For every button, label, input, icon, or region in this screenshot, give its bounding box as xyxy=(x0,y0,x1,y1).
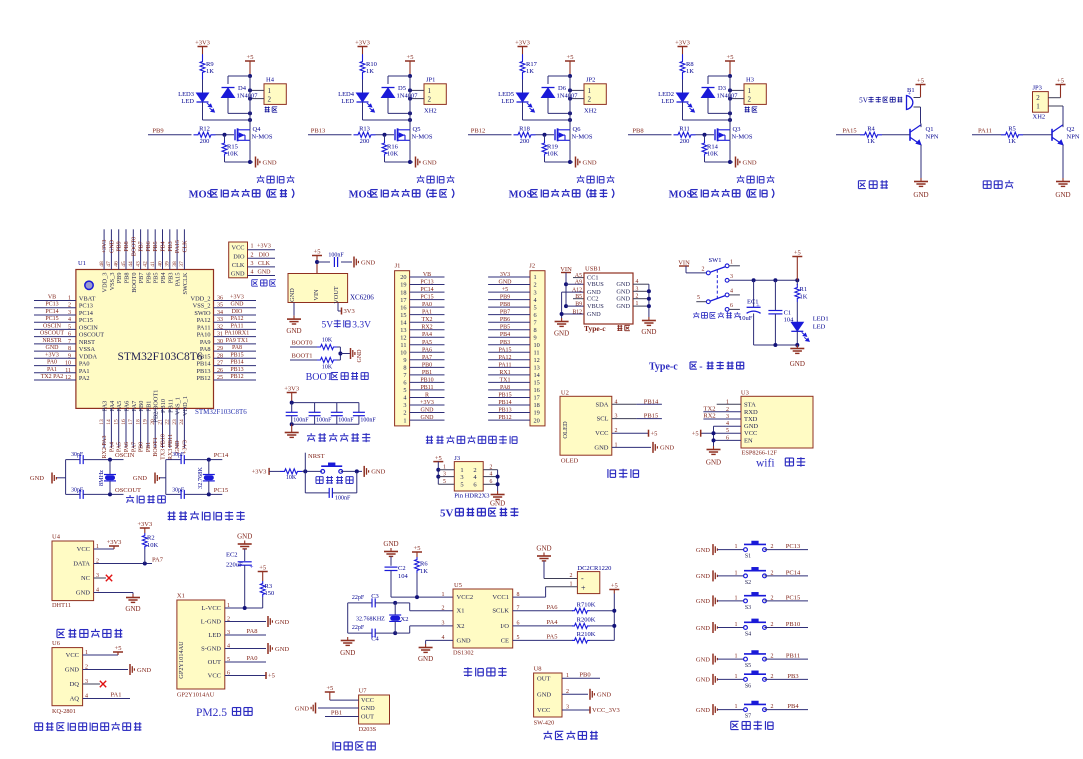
capacitor 100nF #2 xyxy=(314,403,316,413)
wire PA15 to R4 xyxy=(836,134,860,136)
svg-text:GND: GND xyxy=(357,349,363,363)
svg-text:VSSA: VSSA xyxy=(79,346,96,353)
junction dot reset-right xyxy=(355,469,359,473)
svg-text:VCC: VCC xyxy=(77,546,90,553)
svg-text:6: 6 xyxy=(403,380,406,387)
svg-text:PB5: PB5 xyxy=(153,241,159,251)
svg-text:N-MOS: N-MOS xyxy=(252,134,273,141)
svg-text:2: 2 xyxy=(403,410,406,417)
svg-text:2: 2 xyxy=(771,570,774,576)
svg-text:PB8: PB8 xyxy=(124,241,130,251)
caption 输出控制 xyxy=(420,175,422,177)
svg-text:GND: GND xyxy=(583,159,597,166)
svg-text:PB8: PB8 xyxy=(632,127,643,134)
junction dots wifi xyxy=(712,431,716,435)
svg-text:PB6: PB6 xyxy=(145,273,152,284)
junction dot reg input xyxy=(315,260,319,264)
diode D3 1N4007 xyxy=(702,88,715,98)
svg-text:+5: +5 xyxy=(1057,78,1064,85)
svg-text:RX2: RX2 xyxy=(421,325,432,331)
wire DATA to PA7 xyxy=(94,563,152,565)
svg-text:2: 2 xyxy=(534,282,537,289)
capacitor 100nF #4 xyxy=(358,403,360,413)
svg-text:5: 5 xyxy=(68,324,71,330)
svg-text:PB10: PB10 xyxy=(786,621,800,628)
wire kq GND xyxy=(83,669,128,671)
svg-text:GND: GND xyxy=(275,646,289,653)
wire JP3 pin1 to collector xyxy=(1048,105,1063,107)
resistor R3 150 xyxy=(260,581,265,597)
svg-text:PC15: PC15 xyxy=(214,487,228,494)
wire +5 node to diode D3 top xyxy=(708,75,730,77)
svg-text:11: 11 xyxy=(534,350,540,357)
svg-text:2: 2 xyxy=(702,266,705,272)
svg-text:Type-c: Type-c xyxy=(584,324,606,333)
svg-text:30pF: 30pF xyxy=(172,452,185,458)
svg-text:+: + xyxy=(756,303,760,310)
caption 温湿度传感器 xyxy=(57,628,65,630)
svg-text:14: 14 xyxy=(400,319,407,326)
resistor R16 10K pulldown xyxy=(384,135,386,141)
svg-text:1: 1 xyxy=(443,464,446,470)
svg-text:LED5: LED5 xyxy=(498,91,514,98)
svg-text:PA1: PA1 xyxy=(111,692,122,699)
net label OSCIN xyxy=(110,459,124,461)
resistor R7 10K xyxy=(572,608,590,613)
svg-text:X2: X2 xyxy=(457,623,465,630)
resistor 10K (BOOT1) xyxy=(317,357,337,362)
svg-text:3: 3 xyxy=(251,261,254,267)
wire B12 GND xyxy=(562,313,584,315)
resistor R19 10K pulldown xyxy=(544,135,546,141)
svg-text:+3V3: +3V3 xyxy=(230,295,244,301)
svg-text:SWCLK: SWCLK xyxy=(182,272,189,294)
wire JP2 pin2 xyxy=(570,98,584,100)
svg-text:PB9: PB9 xyxy=(500,295,510,301)
svg-text:VCC: VCC xyxy=(744,430,757,437)
wire S3 to PC15 xyxy=(765,600,809,602)
svg-text:2: 2 xyxy=(771,595,774,601)
switch SW1 lever bottom xyxy=(710,296,726,302)
wire collector Q2 xyxy=(1062,124,1064,128)
ground GND (sw420, bar) xyxy=(589,689,591,700)
svg-text:28: 28 xyxy=(217,353,223,359)
mcu pin 40 PB4 xyxy=(162,229,164,269)
svg-text:D3: D3 xyxy=(718,85,726,92)
svg-text:R16: R16 xyxy=(387,144,399,151)
svg-text:2: 2 xyxy=(636,294,639,300)
svg-text:X1: X1 xyxy=(177,593,185,600)
svg-text:2: 2 xyxy=(68,303,71,309)
svg-text:17: 17 xyxy=(534,395,540,402)
svg-text:30pF: 30pF xyxy=(71,488,84,494)
caption 芯片滤波电容 xyxy=(310,433,312,435)
svg-text:4: 4 xyxy=(730,288,733,294)
svg-text:PA2: PA2 xyxy=(79,375,90,382)
mcu pin 41 PB5 xyxy=(154,229,156,269)
switch SW1 lever top xyxy=(710,267,726,273)
svg-text:GND: GND xyxy=(383,540,398,548)
svg-text:5V: 5V xyxy=(440,508,454,520)
svg-text:GND: GND xyxy=(237,533,252,541)
LED LED1 xyxy=(791,322,803,331)
wire cap to GND xyxy=(341,261,352,263)
wire sw pin3 to +5 rail xyxy=(729,279,797,281)
svg-text:8: 8 xyxy=(68,346,71,352)
svg-text:PB13: PB13 xyxy=(230,367,243,373)
button S7 xyxy=(744,708,748,712)
svg-text:VB: VB xyxy=(48,295,56,301)
svg-text:PC13: PC13 xyxy=(420,280,433,286)
wire S7 to PB4 xyxy=(765,709,809,711)
svg-text:MOS: MOS xyxy=(509,190,533,201)
svg-text:BOOT0: BOOT0 xyxy=(292,340,313,347)
svg-text:GND: GND xyxy=(696,656,710,663)
svg-text:PB9: PB9 xyxy=(116,273,123,284)
svg-text:1K: 1K xyxy=(686,68,694,75)
svg-text:PB8: PB8 xyxy=(500,302,510,308)
wire JP3 pin2 to +5 xyxy=(1048,97,1060,99)
svg-text:SW-420: SW-420 xyxy=(534,720,555,727)
svg-text:CLK: CLK xyxy=(258,261,271,267)
svg-text:GND: GND xyxy=(125,605,140,613)
svg-text:wifi: wifi xyxy=(756,458,775,470)
svg-text:1: 1 xyxy=(735,704,738,710)
svg-text:+5: +5 xyxy=(247,54,254,61)
mcu pin 31 PA10 xyxy=(214,336,257,338)
usb right gnd rail xyxy=(648,284,650,317)
svg-text:1: 1 xyxy=(735,544,738,550)
filter cap bottom bus xyxy=(292,423,359,425)
svg-text:U3: U3 xyxy=(741,390,749,397)
J3 left rail xyxy=(437,462,439,485)
wire R5 to base Q2 xyxy=(1023,134,1052,136)
svg-text:PB3: PB3 xyxy=(168,241,174,251)
net label VCC_3V3 xyxy=(562,709,590,711)
svg-text:GND: GND xyxy=(289,288,296,302)
svg-text:R210K: R210K xyxy=(577,631,596,638)
resistor R10 1K xyxy=(360,55,365,80)
svg-text:PB13: PB13 xyxy=(498,408,511,414)
svg-text:XH2: XH2 xyxy=(1033,114,1046,121)
svg-text:VDDA: VDDA xyxy=(79,353,98,360)
svg-text:22: 22 xyxy=(165,419,171,425)
svg-text:R5: R5 xyxy=(1008,126,1016,133)
no-connect X (dht11 NC) xyxy=(94,577,106,579)
svg-text:1: 1 xyxy=(442,592,445,598)
wire JP2 pin1 xyxy=(570,89,584,91)
svg-text:PB6: PB6 xyxy=(146,241,152,251)
ground GND (pm2.5 p4, bar) xyxy=(267,643,269,654)
svg-text:10K: 10K xyxy=(387,151,399,158)
svg-text:GND: GND xyxy=(295,705,309,712)
svg-text:+3V3: +3V3 xyxy=(195,40,210,47)
svg-text:PA10: PA10 xyxy=(197,332,211,339)
svg-text:13: 13 xyxy=(534,365,540,372)
wire sw pin5 stub xyxy=(696,301,706,303)
mcu pin 29 PA8 xyxy=(214,350,257,352)
svg-text:100nF: 100nF xyxy=(335,496,351,502)
svg-text:2: 2 xyxy=(268,96,272,104)
svg-text:+3V3: +3V3 xyxy=(102,240,108,254)
svg-text:PB13: PB13 xyxy=(311,127,325,134)
svg-text:R4: R4 xyxy=(867,126,875,133)
svg-text:KQ-2801: KQ-2801 xyxy=(52,708,76,715)
svg-text:DC2CR1220: DC2CR1220 xyxy=(577,565,611,572)
svg-text:D203S: D203S xyxy=(359,726,377,733)
net label PB1 xyxy=(325,716,359,718)
wire emitter to GND xyxy=(920,145,922,178)
wire +3V3 to 10K xyxy=(269,470,280,472)
svg-text:Q6: Q6 xyxy=(573,126,582,133)
svg-text:B9: B9 xyxy=(575,302,582,308)
junction dot LED-cathode xyxy=(248,118,252,122)
wire +5 node to diode D4 top xyxy=(228,75,250,77)
net label PA4 xyxy=(513,625,573,627)
ground GND (J3) xyxy=(497,491,499,495)
wire button to gnd xyxy=(341,470,362,472)
svg-text:PB0: PB0 xyxy=(138,401,145,412)
wire +5 rail down to MOSFET drain xyxy=(249,76,251,130)
junction dot diode-bottom xyxy=(408,111,412,115)
mcu pin 18 PB0 xyxy=(140,408,142,448)
svg-text:PB1: PB1 xyxy=(331,710,342,717)
net label PA6 xyxy=(513,610,573,612)
svg-text:200: 200 xyxy=(360,138,370,145)
svg-text:PA11: PA11 xyxy=(499,362,512,368)
diode D6 1N4007 xyxy=(542,88,555,98)
capacitor 100nF #1 xyxy=(291,403,293,413)
caption 输出控制 xyxy=(740,175,742,177)
svg-text:U6: U6 xyxy=(52,640,61,647)
caption 输出控制 xyxy=(580,175,582,177)
svg-text:150: 150 xyxy=(265,590,275,597)
svg-text:GND: GND xyxy=(65,667,79,674)
svg-text:15: 15 xyxy=(114,419,120,425)
wire BOOT0 xyxy=(290,346,318,348)
svg-text:DS1302: DS1302 xyxy=(453,650,474,657)
svg-text:PA5: PA5 xyxy=(547,634,558,641)
svg-text:1: 1 xyxy=(534,274,537,281)
LED LED5 xyxy=(517,93,529,102)
svg-text:GND: GND xyxy=(696,677,710,684)
svg-text:VB: VB xyxy=(423,272,431,278)
ground GND (IR, bar left) xyxy=(315,703,317,714)
caption 独立按键 xyxy=(731,720,739,722)
junction dots crystal xyxy=(207,458,211,462)
svg-text:100nF: 100nF xyxy=(360,418,376,424)
svg-text:20: 20 xyxy=(400,274,406,281)
svg-text:14: 14 xyxy=(534,372,541,379)
svg-text:13: 13 xyxy=(99,419,105,425)
ground GND (dht11) xyxy=(132,593,134,595)
svg-text:PC14: PC14 xyxy=(79,310,94,317)
svg-text:LED: LED xyxy=(501,98,514,105)
svg-text:GND: GND xyxy=(76,590,90,597)
crystal 8MHz xyxy=(109,460,111,475)
svg-text:35: 35 xyxy=(217,303,223,309)
svg-text:R3: R3 xyxy=(265,583,273,590)
svg-text:STM32F103C8T6: STM32F103C8T6 xyxy=(195,408,247,416)
junction dot source/gnd xyxy=(568,160,572,164)
svg-text:SWIO: SWIO xyxy=(194,310,211,317)
svg-text:TX2 PA2: TX2 PA2 xyxy=(41,374,64,380)
svg-text:1: 1 xyxy=(428,87,432,95)
svg-text:VSS_2: VSS_2 xyxy=(193,303,211,310)
svg-text:1: 1 xyxy=(268,87,272,95)
svg-text:GND: GND xyxy=(423,159,437,166)
svg-text:GND: GND xyxy=(340,649,355,657)
svg-text:200: 200 xyxy=(680,138,690,145)
mcu pin 45 PB8 xyxy=(125,229,127,269)
svg-text:33: 33 xyxy=(217,317,223,323)
svg-text:44: 44 xyxy=(128,261,134,267)
crystal left rail xyxy=(65,460,67,495)
svg-text:PC14: PC14 xyxy=(420,287,433,293)
svg-text:3: 3 xyxy=(443,471,446,477)
wire VIN to sw pin2 xyxy=(685,266,687,273)
svg-text:100nF: 100nF xyxy=(338,418,354,424)
svg-text:3: 3 xyxy=(403,402,406,409)
svg-text:RX2 PA3: RX2 PA3 xyxy=(102,436,108,459)
capacitor C1 104 xyxy=(774,280,776,310)
svg-text:46: 46 xyxy=(114,261,120,267)
svg-text:XH2: XH2 xyxy=(424,108,437,115)
mcu pin 22 PB11 xyxy=(169,408,171,448)
wire LED cathode down and right to drain node xyxy=(522,102,524,120)
mcu pin 11 PA1 xyxy=(34,372,76,374)
junction dot C3/X2 xyxy=(393,601,397,605)
svg-text:GND: GND xyxy=(490,500,505,508)
wire gnd to C2 xyxy=(390,557,392,566)
svg-text:GND: GND xyxy=(137,667,151,674)
svg-text:NRSTR: NRSTR xyxy=(42,338,61,344)
svg-text:Type-c: Type-c xyxy=(649,362,678,373)
svg-text:2: 2 xyxy=(428,96,432,104)
svg-text:VCC: VCC xyxy=(232,245,245,252)
caption 复位电路 xyxy=(316,476,323,478)
junction dot filter bottom xyxy=(290,422,294,426)
svg-text:GND: GND xyxy=(421,415,435,421)
mcu pin 34 SWIO xyxy=(214,314,257,316)
regulator U XC6206 body xyxy=(288,274,348,303)
svg-text:VCC2: VCC2 xyxy=(457,594,474,601)
svg-text:U8: U8 xyxy=(534,666,542,673)
wire LED cathode down and right to drain node xyxy=(362,102,364,120)
svg-text:7: 7 xyxy=(68,339,71,345)
svg-text:26: 26 xyxy=(217,368,223,374)
caption 单片机引脚外引排针 xyxy=(426,436,433,438)
svg-text:PM2.5: PM2.5 xyxy=(196,707,227,719)
svg-text:VCC_3V3: VCC_3V3 xyxy=(592,707,620,714)
resistor R9 1K xyxy=(200,55,205,80)
svg-text:CLK: CLK xyxy=(182,240,188,253)
svg-text:U1: U1 xyxy=(78,260,86,267)
svg-text:LED: LED xyxy=(341,98,354,105)
wire resistor to LED xyxy=(682,80,684,93)
mcu pin 19 PB1 xyxy=(147,408,149,448)
svg-text:10K: 10K xyxy=(322,365,333,371)
power +5 (kq2801) xyxy=(83,654,118,656)
svg-text:PC14: PC14 xyxy=(45,309,58,315)
junction dot gate/pulldown xyxy=(703,133,707,137)
wifi gnd rail xyxy=(713,426,715,446)
svg-text:PB7: PB7 xyxy=(138,273,145,284)
junction dot source/gnd xyxy=(248,160,252,164)
svg-text:GND: GND xyxy=(616,303,630,310)
svg-text:40: 40 xyxy=(157,261,163,267)
svg-text:2: 2 xyxy=(771,674,774,680)
svg-text:R12: R12 xyxy=(199,126,210,133)
svg-text:PA7: PA7 xyxy=(422,355,432,361)
svg-text:+3V3: +3V3 xyxy=(252,469,267,476)
mcu pin 5 OSCIN xyxy=(34,328,76,330)
svg-text:11: 11 xyxy=(65,368,71,374)
svg-text:PB11: PB11 xyxy=(786,653,800,660)
button S2 xyxy=(744,574,748,578)
svg-text:10K: 10K xyxy=(707,151,719,158)
svg-text:PC15: PC15 xyxy=(786,594,800,601)
svg-text:1K: 1K xyxy=(366,68,374,75)
svg-text:10uF: 10uF xyxy=(739,315,753,322)
wire +5 node to diode D5 top xyxy=(388,75,410,77)
svg-text:D5: D5 xyxy=(398,85,406,92)
wire sw pin1 stub xyxy=(729,265,740,267)
svg-text:J2: J2 xyxy=(529,263,535,270)
resistor R11 200 xyxy=(674,132,696,137)
svg-text:1K: 1K xyxy=(420,568,428,575)
wire pulldown to ground bus xyxy=(224,157,226,163)
wire emitter Q2 to GND xyxy=(1062,145,1064,178)
wire R1 to LED1 xyxy=(796,302,798,322)
svg-text:GND: GND xyxy=(587,311,601,318)
resistor R5 1K xyxy=(1001,132,1023,137)
svg-text:PC14: PC14 xyxy=(786,569,801,576)
ground GND (ds1302) xyxy=(425,640,427,644)
wire battery minus xyxy=(543,561,545,579)
svg-text:NRST: NRST xyxy=(308,453,325,460)
junction dot source/gnd xyxy=(408,160,412,164)
svg-text:+5: +5 xyxy=(435,455,442,462)
svg-text:8: 8 xyxy=(403,365,406,372)
mcu pin 14 PA4 xyxy=(110,408,112,448)
svg-text:B5: B5 xyxy=(575,294,582,300)
svg-text:+3V3: +3V3 xyxy=(137,521,152,528)
svg-text:GND: GND xyxy=(616,288,630,295)
mcu pin 35 VSS_2 xyxy=(214,307,257,309)
wire B5 CC2 stub xyxy=(573,298,584,300)
wire JP1 pin1 xyxy=(410,89,424,91)
svg-text:30: 30 xyxy=(217,339,223,345)
svg-text:43: 43 xyxy=(135,261,141,267)
wire +5 rail down to MOSFET drain xyxy=(409,76,411,130)
svg-text:10K: 10K xyxy=(147,542,159,549)
node dot +5/diode/connector xyxy=(248,74,252,78)
svg-text:PA4: PA4 xyxy=(109,442,115,452)
ground GND (clock crystal) xyxy=(347,637,349,641)
mcu pin 15 PA5 xyxy=(118,408,120,448)
svg-text:PA6: PA6 xyxy=(422,347,432,353)
wire to X2 pin xyxy=(395,632,410,634)
junction dots power rail xyxy=(752,278,756,282)
svg-text:15: 15 xyxy=(400,312,406,319)
svg-text:16: 16 xyxy=(534,387,540,394)
mcu pin 30 PA9 xyxy=(214,343,257,345)
wire A12 GND xyxy=(562,291,584,293)
svg-text:VSS_1: VSS_1 xyxy=(175,397,182,415)
resistor 10K (BOOT0) xyxy=(317,344,337,349)
svg-text:Q4: Q4 xyxy=(253,126,262,133)
